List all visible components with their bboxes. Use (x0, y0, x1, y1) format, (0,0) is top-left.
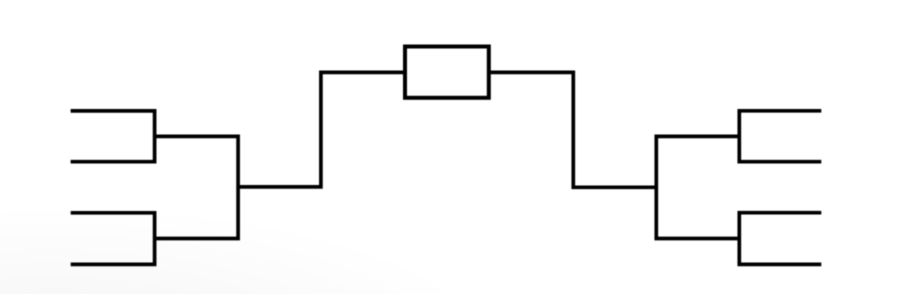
right finalist feed line from championship box (491, 72, 657, 187)
right quarterfinal match 2 bracket (teams 7-8) (739, 213, 821, 265)
right quarterfinal match 1 bracket (teams 5-6) (739, 111, 821, 162)
championship box (405, 47, 489, 98)
left quarterfinal match 1 bracket (teams 1-2) (71, 111, 155, 162)
right semifinal bracket (656, 136, 739, 238)
left quarterfinal match 2 bracket (teams 3-4) (71, 213, 155, 265)
left finalist feed line to championship box (238, 72, 403, 186)
left semifinal bracket (155, 136, 239, 238)
